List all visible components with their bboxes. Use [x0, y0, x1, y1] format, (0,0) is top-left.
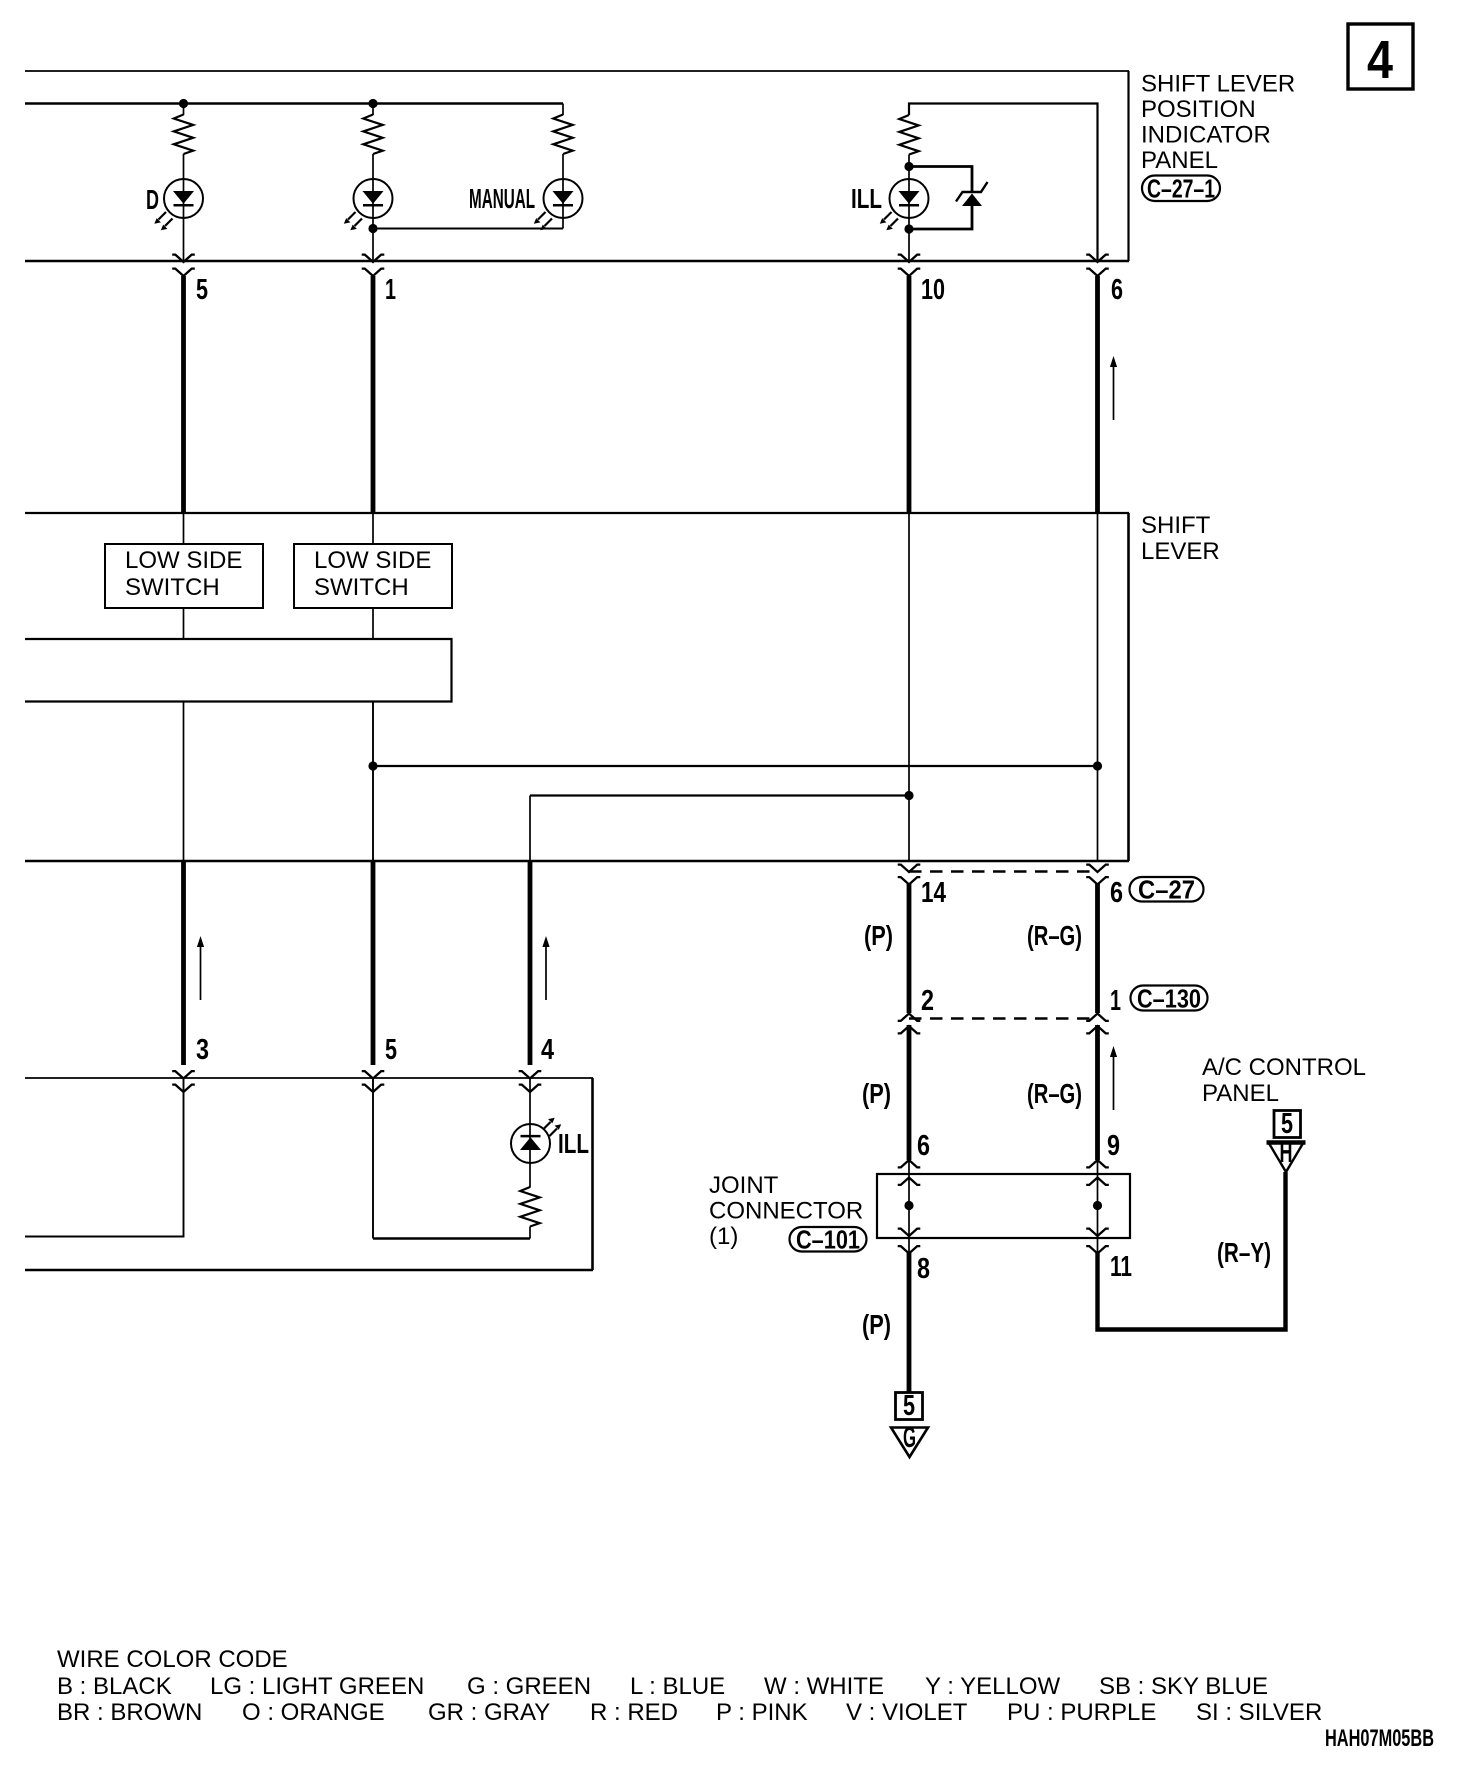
panel: bottom indicator unit outline [25, 1078, 593, 1270]
svg-text:R : RED: R : RED [590, 1699, 678, 1726]
in-line connector C-27: dashed mating line [909, 870, 1098, 872]
wire: cross link y=795 from ill column [530, 794, 909, 796]
wire: stub down to panel bottom at x=530 [529, 796, 531, 862]
svg-text:(R–G): (R–G) [1027, 1078, 1082, 1109]
ground ref box: 5 [896, 1390, 923, 1422]
svg-text:(P): (P) [862, 1309, 891, 1340]
connector label: C-27-1 [1142, 174, 1220, 204]
svg-text:B : BLACK: B : BLACK [57, 1673, 172, 1700]
wire: sense line below bar at x=183 [183, 702, 185, 862]
box: LOW SIDE SWITCH 1 [105, 544, 263, 608]
svg-text:LG : LIGHT GREEN: LG : LIGHT GREEN [210, 1673, 424, 1700]
connector pin chevrons: panel pin 6 [1086, 255, 1109, 276]
wire: switch 1 to common bar [183, 608, 185, 639]
wire: pin 5 harness (thick) [181, 276, 186, 513]
wire: low-side drive 1 (thick) to bottom panel [181, 861, 186, 1065]
resistor: MANUAL-lamp series resistor [553, 115, 572, 155]
svg-text:5: 5 [196, 274, 208, 306]
LED: MANUAL indicator lamp [534, 179, 583, 230]
wire: red-green wire C-130 to joint connector (thick) [1095, 1025, 1100, 1160]
svg-text:LOW SIDE: LOW SIDE [125, 547, 242, 574]
svg-text:1: 1 [1110, 985, 1121, 1017]
resistor: bottom ILL lamp resistor [520, 1187, 539, 1227]
svg-text:5: 5 [385, 1034, 397, 1066]
connector pin chevrons: pin 3 [172, 1071, 195, 1092]
LED: bottom ILL illumination lamp [511, 1118, 561, 1163]
wire: zener parallel loop [909, 167, 972, 230]
svg-text:(P): (P) [862, 1078, 891, 1109]
label: SHIFT LEVER [1141, 512, 1220, 565]
in-line connector C-27: chevrons on pink wire [898, 865, 921, 885]
resistor: position-lamp series resistor [363, 115, 382, 155]
node: junction on pin-10 column [904, 791, 913, 800]
svg-text:V : VIOLET: V : VIOLET [846, 1699, 968, 1726]
box: JOINT CONNECTOR (1) C-101 [877, 1174, 1130, 1238]
resistor: ILL-lamp series resistor [899, 115, 918, 155]
arrow: current direction up beside illumination feed [542, 936, 549, 1000]
svg-text:Y : YELLOW: Y : YELLOW [925, 1673, 1061, 1700]
svg-text:A/C CONTROL: A/C CONTROL [1202, 1054, 1366, 1081]
node: junction MANUAL return on branch [368, 224, 377, 233]
wire: MANUAL-lamp feed from bus [562, 104, 564, 116]
svg-text:1: 1 [385, 274, 396, 306]
svg-text:4: 4 [1367, 30, 1393, 90]
svg-text:5: 5 [1281, 1108, 1293, 1140]
svg-text:(1): (1) [709, 1223, 738, 1250]
wire: pink wire C-130 to joint connector (thick) [907, 1025, 912, 1160]
LED: shift position indicator lamp [344, 179, 393, 230]
connector pin chevrons: panel pin 10 [898, 255, 921, 276]
wire: internal link pin5 to ILL lamp resistor [373, 1237, 530, 1240]
svg-text:GR : GRAY: GR : GRAY [428, 1699, 550, 1726]
wire: into low side switch 2 [372, 513, 374, 544]
in-line connector C-130: chevrons on red-green wire [1086, 1014, 1109, 1034]
ground: G triangle [891, 1422, 928, 1457]
svg-text:C–27: C–27 [1138, 875, 1195, 905]
wire: switch 2 to common bar [372, 608, 374, 639]
node: bus junction at position-lamp branch [368, 99, 377, 108]
arrow: current direction up beside drive 1 [197, 936, 204, 1000]
in-line connector C-130: dashed mating line [909, 1017, 1098, 1019]
wire: ILL-lamp vertical [908, 155, 910, 262]
legend: WIRE COLOR CODE [57, 1646, 1322, 1726]
joint connector chevrons: red-green wire entering [1086, 1160, 1109, 1185]
page ref box: 5 (A/C control panel) [1274, 1108, 1301, 1140]
node: junction on pin-6 column [1093, 761, 1102, 770]
svg-text:HAH07M05BB: HAH07M05BB [1325, 1725, 1434, 1752]
svg-text:4: 4 [541, 1034, 554, 1066]
svg-text:5: 5 [903, 1390, 915, 1422]
svg-text:L : BLUE: L : BLUE [630, 1673, 725, 1700]
joint connector chevrons: red-yellow wire leaving [1086, 1229, 1109, 1254]
wire: pin 5 internal drop [372, 1078, 374, 1239]
connector label: C-101 [790, 1225, 867, 1255]
wire: ILL branch top feed [909, 104, 1098, 262]
wire: supply bus inside indicator panel [25, 102, 563, 105]
node: junction on x=373 line [368, 761, 377, 770]
svg-text:SWITCH: SWITCH [314, 574, 409, 601]
svg-text:(P): (P) [864, 920, 893, 951]
svg-text:SI : SILVER: SI : SILVER [1196, 1699, 1322, 1726]
in-line connector C-27: chevrons on red-green wire [1086, 865, 1109, 885]
svg-text:10: 10 [921, 274, 945, 306]
wire: D-lamp branch vertical [183, 104, 185, 116]
svg-text:11: 11 [1110, 1251, 1132, 1283]
svg-text:D: D [146, 184, 159, 215]
node: joint connector bus dot left [904, 1201, 913, 1210]
svg-text:2: 2 [921, 985, 934, 1017]
box: shift lever internal common bar [25, 639, 452, 702]
svg-text:SHIFT: SHIFT [1141, 512, 1211, 539]
svg-text:H: H [1280, 1137, 1293, 1169]
svg-text:PANEL: PANEL [1202, 1080, 1279, 1107]
node: zener top junction [904, 162, 913, 171]
wire: pin 1 harness (thick) [371, 276, 376, 513]
svg-text:6: 6 [1110, 877, 1123, 909]
svg-text:G : GREEN: G : GREEN [467, 1673, 591, 1700]
arrow: current direction up beside pin 6 wire [1110, 356, 1117, 420]
box: LOW SIDE SWITCH 2 [294, 544, 452, 608]
wire: illumination feed (thick) to bottom panel [528, 861, 533, 1065]
svg-text:6: 6 [1111, 274, 1123, 306]
svg-text:PANEL: PANEL [1141, 147, 1218, 174]
wire: cross link y=766 to pin-6 column [373, 765, 1098, 767]
svg-text:ILL: ILL [851, 183, 882, 214]
svg-text:MANUAL: MANUAL [469, 183, 535, 214]
connector pin chevrons: pin 4 [519, 1071, 542, 1092]
wire: pin 6 harness (thick) [1095, 276, 1100, 513]
LED: D indicator lamp [154, 179, 203, 230]
svg-text:ILL: ILL [558, 1128, 589, 1159]
panel: SHIFT LEVER outline [25, 513, 1129, 861]
connector label: C-130 [1131, 984, 1208, 1014]
svg-text:C–130: C–130 [1137, 984, 1201, 1014]
wire: low-side drive 2 (thick) to bottom panel [371, 861, 376, 1065]
wire: sense line below bar at x=373 [372, 702, 374, 862]
panel: SHIFT LEVER POSITION INDICATOR PANEL outline [25, 71, 1129, 261]
wire: position-lamp branch vertical [372, 104, 374, 116]
svg-text:6: 6 [917, 1130, 930, 1162]
wire: red-green wire C-27 to C-130 (thick) [1095, 884, 1100, 1013]
svg-text:INDICATOR: INDICATOR [1141, 122, 1271, 149]
connector pin chevrons: panel pin 1 [362, 255, 385, 276]
svg-text:9: 9 [1107, 1130, 1120, 1162]
svg-text:3: 3 [196, 1034, 209, 1066]
svg-text:(R–Y): (R–Y) [1217, 1237, 1271, 1268]
svg-text:P : PINK: P : PINK [716, 1699, 808, 1726]
svg-text:SB : SKY BLUE: SB : SKY BLUE [1099, 1673, 1268, 1700]
wire: pink wire to ground (thick) [907, 1253, 912, 1393]
svg-text:C–101: C–101 [796, 1225, 860, 1255]
svg-text:SWITCH: SWITCH [125, 574, 220, 601]
wire: pin-10 column inside shift lever panel [908, 513, 910, 861]
connector label: C-27 [1130, 875, 1204, 905]
page number box: 4 [1348, 24, 1413, 90]
wire: pin 3 internal drop and exit left [25, 1078, 184, 1237]
wire: pink wire through joint connector [908, 1160, 910, 1253]
svg-text:14: 14 [921, 877, 946, 909]
svg-text:WIRE COLOR CODE: WIRE COLOR CODE [57, 1646, 288, 1673]
label: A/C CONTROL PANEL [1202, 1054, 1366, 1107]
node: joint connector bus dot right [1093, 1201, 1102, 1210]
connector pin chevrons: pin 5 [362, 1071, 385, 1092]
svg-text:C–27–1: C–27–1 [1147, 174, 1215, 204]
svg-text:BR : BROWN: BR : BROWN [57, 1699, 202, 1726]
label: JOINT CONNECTOR (1) [709, 1172, 863, 1250]
svg-text:LEVER: LEVER [1141, 538, 1220, 565]
wire: into low side switch 1 [183, 513, 185, 544]
svg-text:CONNECTOR: CONNECTOR [709, 1198, 863, 1225]
svg-text:W : WHITE: W : WHITE [764, 1673, 884, 1700]
node: bus junction at D-lamp branch [179, 99, 188, 108]
LED: ILL illumination lamp [880, 179, 929, 230]
svg-text:SHIFT LEVER: SHIFT LEVER [1141, 71, 1295, 98]
svg-text:JOINT: JOINT [709, 1172, 779, 1199]
svg-text:PU : PURPLE: PU : PURPLE [1007, 1699, 1156, 1726]
wire: pink wire C-27 to C-130 (thick) [907, 884, 912, 1013]
wire: red-green wire through joint connector [1097, 1160, 1099, 1253]
svg-text:8: 8 [917, 1253, 930, 1285]
wire: pin 10 harness (thick) [907, 276, 912, 513]
joint connector chevrons: pink wire leaving [898, 1229, 921, 1254]
svg-text:(R–G): (R–G) [1027, 920, 1082, 951]
resistor: D-lamp series resistor [174, 115, 193, 155]
label: SHIFT LEVER POSITION INDICATOR PANEL [1141, 71, 1295, 175]
zener diode: ILL lamp protection diode [956, 182, 988, 206]
svg-text:POSITION: POSITION [1141, 96, 1256, 123]
wire: MANUAL-lamp return to position-lamp branch [373, 228, 563, 230]
wire: pin 4 internal drop to ILL lamp [529, 1078, 531, 1188]
terminal: H triangle of A/C control panel [1267, 1137, 1306, 1172]
in-line connector C-130: chevrons on pink wire [898, 1014, 921, 1034]
svg-text:O : ORANGE: O : ORANGE [242, 1699, 385, 1726]
node: zener bottom junction [904, 224, 913, 233]
wire: red-yellow wire joint connector to A/C panel (thick) [1098, 1172, 1286, 1330]
arrow: current direction up beside red-green wire [1110, 1046, 1117, 1110]
svg-text:G: G [903, 1422, 916, 1454]
connector pin chevrons: panel pin 5 [172, 255, 195, 276]
svg-text:LOW SIDE: LOW SIDE [314, 547, 431, 574]
wire: pin-6 column inside shift lever panel [1097, 513, 1099, 861]
joint connector chevrons: pink wire entering [898, 1160, 921, 1185]
